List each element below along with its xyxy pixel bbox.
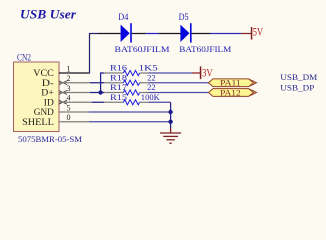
svg-text:GND: GND bbox=[34, 107, 55, 117]
svg-text:1: 1 bbox=[67, 64, 71, 73]
wire pin3 D+ bbox=[59, 92, 90, 94]
junction node D+ bbox=[98, 90, 102, 94]
diode D4 bbox=[121, 25, 130, 42]
svg-text:USB_DP: USB_DP bbox=[280, 83, 314, 93]
wire R16 to 3V bbox=[149, 72, 193, 74]
svg-text:BAT60JFILM: BAT60JFILM bbox=[115, 45, 171, 54]
wire R18 to PA11 bbox=[149, 82, 209, 84]
wire pin1 VCC horizontal bbox=[59, 72, 90, 74]
port PA12 bbox=[249, 89, 257, 97]
svg-text:22: 22 bbox=[147, 73, 156, 82]
resistor R17 zigzag bbox=[123, 90, 139, 95]
svg-text:4: 4 bbox=[67, 94, 71, 103]
svg-text:SHELL: SHELL bbox=[22, 117, 54, 127]
svg-text:D+: D+ bbox=[41, 88, 54, 98]
svg-text:0: 0 bbox=[67, 113, 71, 122]
connector CN2 body bbox=[14, 62, 60, 132]
svg-text:D4: D4 bbox=[118, 12, 128, 22]
wire R15 to ground vertical bbox=[149, 101, 171, 103]
svg-text:USB_DM: USB_DM bbox=[280, 72, 317, 82]
svg-text:1K5: 1K5 bbox=[139, 64, 158, 73]
svg-text:D5: D5 bbox=[179, 12, 189, 22]
ground symbol bbox=[160, 128, 181, 144]
svg-text:5075BMR-05-SM: 5075BMR-05-SM bbox=[18, 134, 82, 144]
svg-text:PA12: PA12 bbox=[220, 88, 241, 97]
svg-text:VCC: VCC bbox=[33, 68, 54, 78]
svg-text:22: 22 bbox=[147, 83, 156, 92]
wire R17 to PA12 bbox=[149, 92, 209, 94]
junction node SHELL bbox=[168, 120, 172, 124]
port PA11 bbox=[249, 79, 257, 87]
no-ERC cross pin2 bbox=[59, 81, 67, 85]
no-ERC cross pin4 bbox=[59, 100, 67, 104]
svg-text:D-: D- bbox=[42, 78, 54, 88]
svg-text:5V: 5V bbox=[253, 25, 264, 39]
svg-text:CN2: CN2 bbox=[17, 53, 31, 63]
wire pin5 GND bbox=[59, 111, 89, 113]
power port 3V bbox=[200, 66, 202, 79]
resistor R15 zigzag bbox=[123, 100, 139, 105]
svg-text:5: 5 bbox=[67, 103, 71, 112]
no-ERC cross pin3 bbox=[59, 91, 67, 95]
wire D4 to D5 bbox=[132, 33, 147, 35]
svg-text:3V: 3V bbox=[202, 66, 213, 80]
junction node GND bbox=[168, 110, 172, 114]
wire pin0 SHELL bbox=[59, 121, 89, 123]
wire pin1 VCC vertical up bbox=[89, 33, 91, 74]
diode D5 bbox=[180, 25, 189, 42]
wire diode row to D4 bbox=[89, 33, 98, 35]
svg-text:2: 2 bbox=[67, 74, 71, 83]
svg-text:BAT60JFILM: BAT60JFILM bbox=[179, 45, 232, 54]
power port 5V bbox=[251, 27, 253, 40]
wire R16 left vertical to D+ node bbox=[100, 73, 102, 93]
wire pin2 D- bbox=[59, 82, 90, 84]
svg-text:3: 3 bbox=[67, 84, 71, 93]
resistor R16 zigzag bbox=[123, 70, 139, 75]
wire pin4 ID bbox=[59, 101, 92, 103]
svg-text:PA11: PA11 bbox=[220, 79, 241, 88]
resistor R18 zigzag bbox=[123, 80, 139, 85]
wire D5 to 5V bbox=[192, 33, 211, 35]
svg-text:ID: ID bbox=[44, 98, 55, 108]
svg-text:100K: 100K bbox=[141, 93, 160, 102]
svg-text:USB User: USB User bbox=[20, 8, 76, 22]
